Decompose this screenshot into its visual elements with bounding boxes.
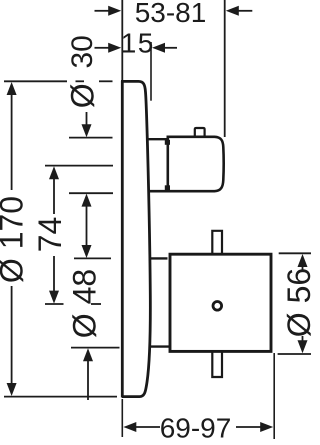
handle square body bbox=[170, 254, 271, 351]
handle top tab bbox=[212, 231, 222, 254]
arrowhead 74 bottom bbox=[49, 291, 59, 304]
arrowhead 53-81 right bbox=[226, 6, 239, 16]
arrowhead 69-97 left bbox=[123, 422, 136, 432]
wire extension line top of plate y=81 bbox=[4, 80, 67, 82]
arrowhead 74 top bbox=[49, 166, 59, 179]
arrowhead Ø56 top bbox=[298, 254, 308, 267]
wire Ø56 bottom extension bbox=[278, 353, 311, 355]
upper knob (volume control) bbox=[148, 128, 224, 191]
knob clip bump top bbox=[165, 140, 170, 145]
dimension line Ø56 bbox=[302, 265, 304, 270]
wire extension line sleeve top y=258.4 bbox=[74, 257, 111, 259]
arrowhead Ø170 top bbox=[7, 82, 17, 95]
dimension 69-97 arrows bbox=[136, 426, 160, 428]
svg-text:Ø: Ø bbox=[65, 83, 101, 108]
dimension line Ø30 shaft bbox=[86, 112, 88, 126]
knob clip bump bottom bbox=[165, 185, 170, 190]
lower handle (thermostat) bbox=[149, 231, 272, 377]
wire extension line knob bottom y=193.2 bbox=[69, 192, 113, 194]
wire extension line right of 53-81 (knob front, x=224) bbox=[224, 0, 226, 137]
wire extension line below handle (69-97 right) bbox=[273, 353, 275, 439]
wire extension line for 15 (plate front plane, x=151) bbox=[150, 42, 152, 101]
wire extension line left of 53-81 (wall plane, x=122) bbox=[121, 0, 123, 80]
wire extension line knob centerline y=165.6 bbox=[45, 165, 113, 167]
svg-text:74: 74 bbox=[32, 217, 68, 253]
wire extension line handle centerline y=304 bbox=[45, 303, 64, 305]
svg-text:53-81: 53-81 bbox=[135, 0, 207, 28]
svg-text:30: 30 bbox=[66, 35, 99, 68]
arrowhead 53-81 left bbox=[108, 6, 121, 16]
wire extension line knob top y=137.6 bbox=[69, 137, 113, 139]
svg-text:Ø 48: Ø 48 bbox=[67, 269, 103, 338]
wire extension line plate bottom y=396.6 bbox=[4, 396, 117, 398]
handle center dot bbox=[213, 302, 222, 311]
arrowhead 15 left bbox=[108, 43, 121, 53]
arrowhead 69-97 right bbox=[260, 422, 273, 432]
svg-text:Ø 56: Ø 56 bbox=[281, 268, 317, 337]
handle bottom tab bbox=[212, 352, 222, 377]
arrowhead 15 right bbox=[152, 43, 165, 53]
dimension line Ø48 lower outside shaft bbox=[87, 360, 89, 400]
svg-text:15: 15 bbox=[121, 27, 155, 58]
handle neck top line bbox=[149, 257, 168, 259]
svg-text:Ø 170: Ø 170 bbox=[0, 196, 30, 283]
knob neck top line bbox=[148, 138, 167, 140]
dimension line between Ø30 and Ø48 (outside arrows shaft) bbox=[86, 205, 88, 247]
plate back edge bbox=[121, 81, 124, 398]
wire extension line below plate (69-97 left) bbox=[121, 399, 123, 437]
wire Ø56 top extension bbox=[279, 252, 311, 254]
dimension line 74 bbox=[53, 177, 55, 214]
dimension 15 arrows bbox=[95, 47, 111, 49]
dimension 53-81 arrows bbox=[95, 10, 111, 12]
handle neck bottom line bbox=[150, 345, 170, 347]
arrowhead middle down (Ø48 top outside) bbox=[82, 245, 92, 258]
dimension line Ø170 (x=11.6) bbox=[11, 93, 13, 190]
arrowhead Ø30 down bbox=[82, 124, 92, 137]
wire extension line sleeve bottom y=347.6 bbox=[71, 347, 120, 349]
svg-text:69-97: 69-97 bbox=[160, 413, 232, 444]
knob body bbox=[149, 137, 224, 191]
arrowhead Ø56 bottom bbox=[298, 340, 308, 353]
arrowhead Ø170 bottom bbox=[7, 383, 17, 396]
arrowhead Ø48 bottom outside up bbox=[83, 348, 93, 361]
escutcheon plate profile bbox=[121, 81, 150, 398]
knob top button bbox=[195, 128, 205, 138]
arrowhead middle up (Ø30 bottom outside) bbox=[82, 194, 92, 207]
